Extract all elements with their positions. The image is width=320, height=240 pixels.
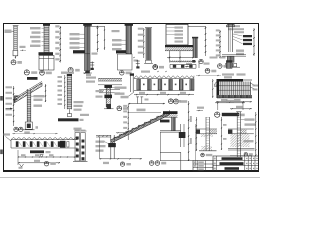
parapet notes upper left bbox=[86, 77, 96, 83]
parapet notes left bbox=[96, 90, 103, 98]
binding mark lower bbox=[0, 150, 3, 155]
stair platform title bbox=[160, 120, 170, 123]
comb wall bottom dimension bbox=[134, 92, 194, 95]
ladder bottom notes bbox=[74, 101, 90, 116]
floor beam sawtooth top bbox=[11, 137, 78, 139]
ladder bottom marks bbox=[68, 109, 72, 117]
stair mid dim ticks bbox=[116, 132, 129, 133]
detail C wang column symbol bbox=[90, 62, 94, 71]
detail E base marks bbox=[144, 60, 153, 63]
detail C outer dimension line bbox=[104, 26, 105, 50]
detail V hatched ground bbox=[231, 134, 250, 147]
floor beam label circle bbox=[44, 161, 56, 166]
detail C foot block bbox=[85, 71, 90, 74]
detail C note rows bbox=[70, 33, 85, 49]
stair right beam bbox=[179, 124, 186, 147]
floor beam datum mark bbox=[19, 164, 24, 169]
sheet frame bottom border bbox=[3, 170, 259, 172]
retaining block top slab bbox=[217, 79, 253, 82]
detail D note rows bbox=[112, 39, 126, 50]
detail A hatched wall bbox=[13, 26, 19, 50]
detail G ground slab lines bbox=[222, 55, 246, 56]
lintel plan hatch top bbox=[170, 60, 196, 62]
stair sloped flight bbox=[111, 110, 170, 142]
stair lower post bbox=[108, 135, 116, 159]
comb wall left cap bbox=[130, 73, 134, 92]
detail E left dimension string bbox=[138, 28, 145, 58]
detail B footing slab bbox=[39, 52, 54, 55]
floor beam stud blocks bbox=[16, 141, 69, 148]
detail C bottom marks bbox=[83, 72, 92, 76]
detail C label circle bbox=[68, 67, 80, 72]
detail B column cap bbox=[43, 24, 50, 26]
eave bottom label circles bbox=[14, 126, 38, 134]
detail U slab bbox=[196, 129, 217, 134]
detail F side column bbox=[192, 37, 198, 58]
detail U small notes bbox=[197, 107, 205, 111]
ladder hatched shaft bbox=[67, 76, 71, 109]
parapet coping hatch bbox=[98, 78, 122, 84]
paper edge faint line bbox=[0, 177, 260, 178]
parapet dark beam lower bbox=[104, 95, 112, 99]
title block text row 3 bbox=[225, 167, 240, 170]
stair wall below landing bbox=[172, 117, 176, 131]
detail B note rows bbox=[30, 27, 44, 47]
detail U right dimension bbox=[221, 117, 227, 150]
wang column symbol 2 bbox=[136, 60, 140, 69]
retaining block bottom course bbox=[217, 95, 252, 98]
detail G mid notes bbox=[236, 50, 244, 56]
stair floor lines bbox=[160, 131, 181, 132]
detail F room square outline bbox=[166, 24, 188, 45]
detail E label circle bbox=[153, 65, 164, 70]
parapet label circle bbox=[117, 106, 129, 111]
detail C side note bbox=[92, 53, 98, 55]
floor beam left leader bbox=[4, 133, 12, 141]
detail U label circle bbox=[201, 153, 213, 157]
floor beam datum triangle bbox=[40, 155, 43, 158]
detail F drop walls bbox=[170, 51, 181, 63]
detail F label circle bbox=[205, 68, 216, 73]
detail B hatched wall column bbox=[44, 24, 49, 56]
mini hatched column symbol bbox=[226, 61, 232, 69]
retaining block left edge bbox=[217, 79, 220, 98]
paired posts top marks bbox=[74, 128, 87, 132]
ladder title text bbox=[58, 118, 84, 121]
paired posts base line bbox=[73, 160, 88, 162]
eave post bbox=[27, 89, 31, 122]
detail U title circle bbox=[215, 112, 245, 117]
detail D room outline bbox=[118, 54, 139, 70]
detail C left dimension string bbox=[55, 25, 61, 62]
eave leader arrow bbox=[6, 108, 13, 110]
eave right dimension bbox=[45, 84, 46, 102]
detail D floor slab bbox=[116, 50, 132, 54]
floor beam band bbox=[11, 140, 78, 148]
comb wall mid dots bbox=[143, 84, 187, 86]
stair scale label circle bbox=[168, 99, 180, 104]
eave sloped roof beam bbox=[14, 81, 42, 103]
detail G column bbox=[227, 25, 235, 52]
detail G left dimension string bbox=[216, 29, 221, 58]
detail A label circle bbox=[11, 60, 22, 65]
eave post footing bbox=[23, 122, 35, 130]
eave detail title text bbox=[27, 77, 38, 80]
ladder detail top note bbox=[61, 72, 74, 74]
small marks cluster bbox=[192, 57, 225, 69]
stair label circles bbox=[149, 161, 166, 166]
stair upper guide line bbox=[128, 109, 161, 113]
small label circle M bbox=[199, 59, 203, 63]
detail G top dimension bbox=[227, 24, 235, 25]
detail A base block bbox=[13, 50, 18, 58]
floor beam title text bbox=[30, 150, 51, 153]
detail V notes right bbox=[241, 118, 256, 142]
stair outer right line bbox=[194, 124, 196, 165]
parapet wall column bbox=[106, 85, 110, 107]
detail D label circle bbox=[120, 71, 132, 76]
detail F slab band bbox=[165, 45, 195, 51]
detail G right dimension line bbox=[253, 28, 255, 56]
detail B footing box bbox=[39, 56, 54, 71]
eave detail label circle bbox=[24, 70, 37, 75]
sheet frame left border bbox=[3, 23, 4, 171]
retaining block left notch bbox=[214, 79, 218, 86]
detail B label circle bbox=[40, 70, 52, 75]
detail F right dimension line bbox=[188, 26, 206, 56]
stair landing slab bbox=[163, 111, 178, 117]
parapet wing lines bbox=[99, 89, 120, 92]
title block text row 2 bbox=[220, 162, 244, 165]
retaining block notes above bbox=[222, 73, 246, 78]
stair lower floor lines bbox=[96, 135, 111, 137]
comb wall leader note bbox=[121, 92, 135, 98]
floor beam dimension rows bbox=[18, 150, 78, 165]
detail G footing bbox=[224, 56, 240, 67]
stair top dimension line bbox=[128, 103, 165, 104]
title block text row 1 bbox=[222, 157, 243, 160]
paired post left bbox=[75, 133, 80, 162]
parapet dark beam upper bbox=[104, 85, 112, 88]
stair bottom dimension bbox=[100, 137, 143, 166]
stair left dimension string bbox=[123, 104, 129, 140]
title block right section bbox=[213, 156, 258, 171]
detail U under-slab hatch bbox=[201, 134, 213, 137]
stair right dimension string bbox=[188, 101, 192, 161]
comb wall sawtooth top bbox=[134, 71, 194, 79]
detail G top notes bbox=[226, 25, 244, 33]
stair lower notes bbox=[96, 141, 109, 152]
floor beam upper dim row bbox=[12, 132, 58, 135]
detail V top dimension bbox=[230, 106, 252, 110]
ladder cap bbox=[67, 74, 72, 76]
lintel plan band bbox=[170, 64, 196, 68]
retaining block hatched body bbox=[219, 82, 251, 96]
comb wall label circle bbox=[174, 99, 188, 104]
ladder left tick column bbox=[58, 75, 66, 109]
detail C right dimension line bbox=[85, 26, 105, 52]
parapet foot bbox=[104, 104, 114, 109]
stair top dim ticks bbox=[136, 97, 148, 104]
stair lower box lines bbox=[160, 132, 193, 171]
sheet frame right border bbox=[258, 23, 259, 171]
eave note rows right bbox=[31, 95, 45, 107]
binding mark upper bbox=[0, 96, 3, 101]
parapet notes right bbox=[110, 87, 126, 95]
retaining block right marks bbox=[251, 83, 259, 91]
sheet frame top border bbox=[3, 23, 259, 24]
comb wall band bbox=[134, 79, 194, 91]
detail V footing lines bbox=[228, 148, 255, 155]
detail V right dimension bbox=[255, 112, 256, 156]
detail E hatched column bbox=[145, 28, 152, 60]
detail U wall bbox=[206, 117, 209, 151]
ground faint line right bbox=[196, 74, 221, 77]
detail C column cap bbox=[83, 23, 92, 26]
detail D upper note bbox=[112, 30, 120, 32]
detail V label circle bbox=[244, 153, 253, 156]
lintel label circle bbox=[153, 65, 158, 70]
title block left section bbox=[193, 161, 213, 172]
detail F bottom dimension bbox=[167, 57, 194, 59]
detail C floor slab bbox=[73, 50, 90, 54]
detail G leader notes bbox=[233, 34, 252, 45]
detail V wall bbox=[236, 112, 241, 157]
eave left dimension string bbox=[6, 86, 15, 126]
retaining block left dimension bbox=[212, 79, 213, 98]
detail C hatched wall column bbox=[85, 24, 90, 71]
detail F small marks lower left bbox=[185, 63, 192, 67]
comb wall hatched piers bbox=[137, 79, 194, 90]
title block cell dots bbox=[214, 158, 258, 170]
detail U top dimension bbox=[215, 100, 245, 110]
detail D column cap bbox=[125, 23, 133, 26]
detail D hatched wall column bbox=[126, 24, 132, 54]
retaining block bottom dimension bbox=[216, 99, 252, 102]
detail B bottom tick bbox=[20, 46, 27, 51]
detail F note stack bbox=[166, 27, 183, 43]
eave gutter bbox=[14, 96, 18, 102]
detail V slab bbox=[228, 129, 254, 134]
detail A note text bbox=[5, 30, 14, 34]
paired post right bbox=[81, 133, 86, 162]
detail U footing bbox=[199, 146, 217, 151]
mini column label circle bbox=[218, 64, 228, 69]
detail U left dimension bbox=[196, 117, 197, 151]
